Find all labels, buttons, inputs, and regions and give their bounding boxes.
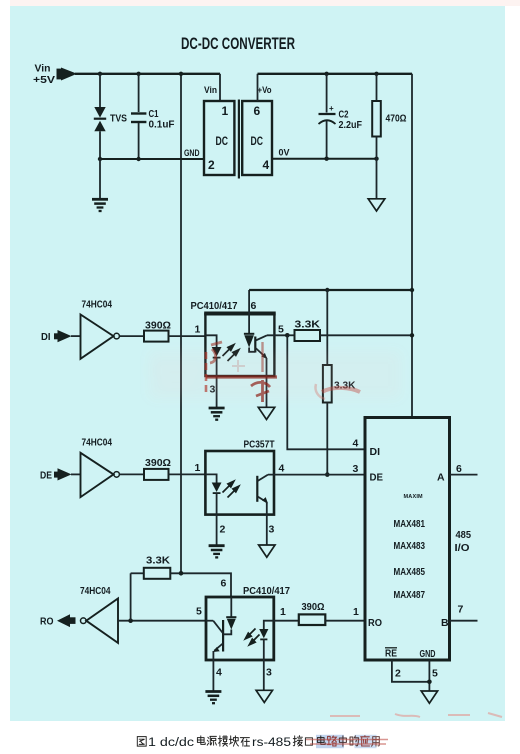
wire to isolated ground (top) bbox=[376, 159, 378, 199]
wire pin6 drop into box bbox=[248, 290, 250, 334]
LED (PC357T) bbox=[212, 483, 222, 494]
svg-text:6: 6 bbox=[221, 578, 227, 590]
label pin 1 (MAX RO) bbox=[353, 606, 359, 618]
svg-text:4: 4 bbox=[216, 667, 222, 679]
label pin 5 (MAX GND) bbox=[432, 668, 438, 680]
label 3.3K (DI pull-up) bbox=[295, 320, 321, 331]
node RO label bbox=[40, 617, 54, 628]
svg-text:485: 485 bbox=[456, 530, 472, 541]
wire 0V bbox=[272, 157, 379, 161]
svg-text:7: 7 bbox=[458, 604, 464, 616]
label pin 7 (MAX B) bbox=[458, 604, 464, 616]
svg-text:390Ω: 390Ω bbox=[302, 602, 325, 613]
caption char 源 bbox=[207, 736, 216, 745]
wire pin1 internal to LED bbox=[205, 335, 216, 347]
caption char 电 bbox=[317, 736, 325, 745]
svg-text:5: 5 bbox=[278, 324, 284, 336]
node junction dots on +5V wire bbox=[98, 72, 183, 76]
label 390ohm (DI) bbox=[145, 321, 171, 332]
wire +Vo rail (x=412) bbox=[411, 74, 413, 418]
wire photodiode to base (RO opto) bbox=[223, 630, 231, 635]
wire pin6 rise bbox=[257, 74, 259, 101]
label 485 I/O bbox=[455, 530, 472, 554]
svg-text:A: A bbox=[437, 472, 445, 484]
capacitor C2 polarized bbox=[319, 104, 336, 124]
wire to earth ground bbox=[99, 159, 101, 198]
wire pin6 drop to photodiode (RO opto) bbox=[230, 597, 232, 617]
svg-text:DC: DC bbox=[216, 134, 229, 148]
svg-text:TVS: TVS bbox=[110, 114, 127, 125]
svg-text:74HC04: 74HC04 bbox=[82, 299, 113, 311]
wire R390 to optocoupler pin1 bbox=[169, 335, 206, 337]
label pin 1 (PC357T) bbox=[195, 462, 201, 474]
label MAX487 bbox=[394, 590, 426, 601]
wire opto pin1 to R390 (RO) bbox=[274, 620, 299, 622]
wire B output bbox=[450, 620, 478, 622]
svg-text:1 dc/dc: 1 dc/dc bbox=[148, 737, 194, 749]
caption char 口 bbox=[305, 738, 312, 745]
wire pin5 out bbox=[267, 333, 290, 338]
svg-text:PC410/417: PC410/417 bbox=[191, 301, 238, 312]
label 0V bbox=[279, 148, 291, 159]
IC U5 MAX481/483/485/487 box bbox=[365, 418, 450, 661]
wire TVS bottom bbox=[99, 131, 101, 159]
svg-text:Vin: Vin bbox=[35, 64, 51, 75]
svg-text:3: 3 bbox=[266, 667, 272, 679]
output arrow RO (points left) bbox=[57, 614, 76, 627]
inverter U1B 74HC04 (DE) bbox=[81, 453, 120, 497]
wire 3.3K right to pin6 (RO opto) bbox=[170, 571, 231, 597]
wire LED to box bottom (RO opto) bbox=[263, 639, 265, 660]
caption char 路 bbox=[327, 736, 336, 746]
diode TVS bbox=[94, 107, 106, 131]
caption char 的 bbox=[350, 736, 358, 746]
photodiode (RO opto) bbox=[226, 617, 236, 629]
wire vertical 3.3K bottom bbox=[325, 403, 330, 477]
wire RE pin2 stub bbox=[392, 660, 430, 682]
wire 470 top bbox=[376, 74, 378, 101]
label RE with overline (MAX) bbox=[385, 648, 397, 660]
svg-text:4: 4 bbox=[279, 463, 285, 475]
label +Vo (module) bbox=[258, 85, 272, 96]
label 74HC04 (DE) bbox=[82, 437, 113, 449]
node junction dots on +Vo wire bbox=[324, 72, 378, 76]
svg-text:GND: GND bbox=[184, 148, 200, 159]
wire pin4 to ground (RO opto) bbox=[212, 660, 214, 691]
label B (MAX) bbox=[441, 617, 449, 629]
watermark band (faint red) bbox=[150, 352, 400, 398]
label 3.3K (vertical, red tinted) bbox=[334, 381, 356, 392]
ground isolated triangle (top) bbox=[368, 199, 385, 211]
wire +5V top bbox=[75, 73, 220, 75]
label Vin (module) bbox=[204, 85, 217, 96]
ground earth (PC357T input side) bbox=[209, 546, 225, 558]
svg-text:1: 1 bbox=[280, 606, 286, 618]
wire emitter to isolated ground bbox=[266, 376, 268, 407]
ground isolated triangle (RO opto) bbox=[256, 690, 272, 702]
svg-text:4: 4 bbox=[263, 158, 270, 172]
label PC410/417 (RO) bbox=[243, 586, 290, 597]
label pin 3 (RO opto) bbox=[266, 667, 272, 679]
label 74HC04 (DI) bbox=[82, 299, 113, 311]
input arrow DI bbox=[54, 330, 72, 342]
svg-text:1: 1 bbox=[222, 104, 229, 118]
svg-text:6: 6 bbox=[251, 300, 257, 312]
label pin 6 (RO opto) bbox=[221, 578, 227, 590]
photodiode (PC410 DI) bbox=[244, 334, 254, 348]
caption char 用 bbox=[371, 737, 379, 747]
svg-text:4: 4 bbox=[353, 438, 359, 450]
wire GND pin5 stub bbox=[427, 660, 432, 691]
svg-text:0V: 0V bbox=[279, 148, 291, 159]
wire +Vo top bbox=[258, 73, 413, 75]
wire A output bbox=[450, 474, 478, 476]
DC-DC module output half bbox=[242, 101, 272, 175]
wire +5V rail (input side, x=181) bbox=[180, 74, 182, 574]
svg-text:2: 2 bbox=[395, 668, 401, 680]
wire pin1 drop bbox=[219, 74, 221, 101]
wire R390 to PC357T pin1 bbox=[169, 473, 206, 475]
wire LED to box bottom (PC357T) bbox=[216, 493, 218, 514]
label 470ohm bbox=[386, 114, 407, 125]
wire DI signal drop to MAX bbox=[287, 335, 365, 449]
svg-text:I/O: I/O bbox=[455, 543, 470, 554]
label MAX483 bbox=[394, 541, 426, 552]
svg-text:470Ω: 470Ω bbox=[386, 114, 407, 125]
caption char 图 bbox=[137, 737, 146, 747]
ground earth (PC410 DI input side) bbox=[209, 408, 225, 420]
transistor (RO opto mirrored) bbox=[213, 620, 223, 652]
svg-text:0.1uF: 0.1uF bbox=[149, 120, 175, 131]
label 3.3K (RO pull-up) bbox=[146, 556, 171, 567]
label DI (MAX) bbox=[370, 446, 381, 458]
watermark specks bottom edge bbox=[330, 713, 502, 717]
resistor 390ohm (RO) bbox=[299, 614, 326, 625]
label TVS bbox=[110, 114, 127, 125]
wire pin3 to isolated ground (PC357T) bbox=[266, 515, 268, 545]
watermark red blob near 3.3K label bbox=[315, 384, 360, 399]
svg-text:3: 3 bbox=[353, 463, 359, 475]
ground isolated triangle (PC357T) bbox=[259, 545, 275, 557]
svg-text:3.3K: 3.3K bbox=[146, 556, 171, 567]
resistor 470ohm bbox=[372, 101, 381, 137]
ground earth (input) bbox=[92, 199, 108, 211]
svg-text:C1: C1 bbox=[149, 109, 159, 120]
wire C2 bottom bbox=[326, 121, 328, 159]
label PC410/417 (DI) bbox=[191, 301, 238, 312]
svg-text:RO: RO bbox=[368, 617, 382, 629]
caption char 在 bbox=[240, 738, 249, 747]
input arrow DE bbox=[54, 468, 72, 480]
wire DE signal to MAX pin3 bbox=[268, 474, 365, 476]
svg-text:390Ω: 390Ω bbox=[145, 458, 171, 469]
wire DE arrow to inverter bbox=[71, 473, 81, 475]
label A (MAX) bbox=[437, 472, 445, 484]
svg-text:3.3K: 3.3K bbox=[295, 320, 321, 331]
label pin 5 (PC410 DI) bbox=[278, 324, 284, 336]
wire C1 top bbox=[138, 74, 140, 112]
svg-text:6: 6 bbox=[254, 104, 261, 118]
wire inverter to R390 (DE) bbox=[119, 473, 144, 475]
svg-text:+Vo: +Vo bbox=[258, 85, 272, 96]
light arrows (PC357T) bbox=[223, 481, 239, 497]
wire pin3 to ground bbox=[216, 376, 218, 407]
caption char 模 bbox=[218, 736, 227, 747]
label pin 2 (MAX RE) bbox=[395, 668, 401, 680]
node DI label bbox=[41, 332, 51, 343]
svg-text:RO: RO bbox=[40, 617, 54, 628]
wire TVS top bbox=[99, 74, 101, 107]
label C1 0.1uF bbox=[149, 109, 175, 131]
wire input GND bbox=[98, 157, 204, 161]
label PC357T bbox=[244, 440, 275, 451]
svg-text:MAX483: MAX483 bbox=[394, 541, 426, 552]
wire 470 bottom bbox=[376, 137, 378, 159]
svg-text:PC357T: PC357T bbox=[244, 440, 275, 451]
svg-text:DC-DC CONVERTER: DC-DC CONVERTER bbox=[181, 34, 295, 53]
wire emitter to box bottom bbox=[266, 358, 268, 376]
wire pin5 internal (RO opto) bbox=[206, 620, 213, 622]
svg-text:B: B bbox=[441, 617, 449, 629]
svg-text:DI: DI bbox=[370, 446, 381, 458]
resistor 390ohm (DE) bbox=[144, 469, 169, 480]
node Vin +5V label bbox=[33, 64, 55, 87]
svg-text:5: 5 bbox=[432, 668, 438, 680]
ground isolated triangle (MAX) bbox=[421, 691, 437, 703]
wire C1 bottom bbox=[138, 123, 140, 159]
wire R390 to MAX RO pin1 bbox=[325, 620, 365, 622]
label C2 2.2uF bbox=[339, 110, 363, 132]
label GND (MAX) bbox=[420, 649, 436, 660]
opto box PC410/417 U4 (RO) bbox=[206, 597, 274, 660]
label pin 4 (PC357T) bbox=[279, 463, 285, 475]
caption char 接 bbox=[293, 736, 302, 747]
label pin 2 (PC357T) bbox=[220, 524, 226, 536]
label pin 3 (PC357T) bbox=[269, 524, 275, 536]
input arrow Vin bbox=[57, 68, 78, 81]
wire 3.3K left leg down bbox=[130, 573, 132, 620]
svg-text:2: 2 bbox=[220, 524, 226, 536]
label pin 1 (RO opto) bbox=[280, 606, 286, 618]
wire pin2 to ground bbox=[216, 515, 218, 545]
watermark dark strokes over DI opto bbox=[206, 342, 277, 402]
svg-text:MAX481: MAX481 bbox=[394, 519, 426, 530]
wire pin3 to isolated ground (RO opto) bbox=[263, 660, 265, 690]
svg-text:1: 1 bbox=[195, 462, 201, 474]
resistor 390ohm (DI) bbox=[144, 331, 169, 342]
label GND bbox=[184, 148, 200, 159]
wire photodiode to base bbox=[249, 348, 255, 352]
caption char 电 bbox=[197, 736, 205, 745]
svg-text:DC: DC bbox=[251, 134, 264, 148]
svg-text:DI: DI bbox=[41, 332, 51, 343]
wire pin5 to R3.3K bbox=[287, 334, 294, 336]
svg-text:1: 1 bbox=[353, 606, 359, 618]
svg-text:3: 3 bbox=[269, 524, 275, 536]
svg-text:DE: DE bbox=[370, 472, 384, 484]
label MAX485 bbox=[394, 567, 426, 578]
inverter U1C 74HC04 (RO, mirrored) bbox=[81, 599, 119, 643]
resistor 3.3K (DI pull-up) bbox=[295, 330, 321, 341]
wire inverter input (RO line) bbox=[118, 618, 206, 623]
LED (PC410 DI) bbox=[212, 347, 222, 358]
label 390ohm (RO) bbox=[302, 602, 325, 613]
svg-text:rs-485: rs-485 bbox=[252, 737, 291, 749]
ground earth (RO opto output side) bbox=[205, 692, 221, 704]
resistor 3.3K (DE pull-up vertical) bbox=[323, 365, 332, 403]
svg-text:6: 6 bbox=[456, 463, 462, 475]
svg-text:2.2uF: 2.2uF bbox=[339, 120, 363, 131]
node DE label bbox=[40, 471, 52, 482]
wire vertical 3.3K top bbox=[326, 290, 328, 365]
DC-DC module input half bbox=[204, 101, 234, 175]
wire LED to box bottom bbox=[216, 358, 218, 376]
inverter U1A 74HC04 (DI) bbox=[81, 315, 120, 359]
label pin 4 (MAX DI) bbox=[353, 438, 359, 450]
svg-text:1: 1 bbox=[195, 324, 201, 336]
wire 3.3K left bbox=[131, 572, 144, 574]
svg-text:Vin: Vin bbox=[204, 85, 217, 96]
caption watermark red overlay bbox=[306, 740, 388, 745]
svg-text:DE: DE bbox=[40, 471, 52, 482]
svg-text:PC410/417: PC410/417 bbox=[243, 586, 290, 597]
opto box PC357T U3 (DE) bbox=[205, 451, 274, 515]
caption char 应 bbox=[361, 736, 370, 747]
svg-text:MAX487: MAX487 bbox=[394, 590, 426, 601]
label pin 3 (PC410 DI) bbox=[210, 384, 216, 396]
svg-text:5: 5 bbox=[196, 606, 202, 618]
title DC-DC CONVERTER bbox=[181, 34, 295, 53]
caption latin "1 dc/dc" bbox=[148, 737, 194, 749]
svg-text:C2: C2 bbox=[339, 110, 349, 121]
svg-text:MAXIM: MAXIM bbox=[404, 494, 424, 500]
label DE (MAX) bbox=[370, 472, 384, 484]
wire inverter to R 390 bbox=[119, 335, 144, 337]
caption char 中 bbox=[339, 736, 346, 746]
label pin 3 (MAX DE) bbox=[353, 463, 359, 475]
label 390ohm (DE) bbox=[145, 458, 171, 469]
wire pin6 +Vo feed bbox=[249, 288, 414, 292]
light arrows (RO opto, pointing down-left) bbox=[245, 629, 259, 645]
light arrows (PC410 DI) bbox=[223, 345, 239, 361]
caption char 块 bbox=[229, 736, 238, 746]
svg-text:74HC04: 74HC04 bbox=[80, 585, 111, 597]
wire C2 top bbox=[326, 74, 328, 113]
logo maxim tiny bbox=[404, 494, 424, 500]
op-to box PC410/417 U2 (DI) bbox=[204, 314, 276, 377]
wire R3.3K to +Vo rail bbox=[320, 333, 414, 337]
svg-text:RE: RE bbox=[385, 649, 397, 660]
LED (RO opto right side) bbox=[259, 621, 274, 640]
svg-text:MAX485: MAX485 bbox=[394, 567, 426, 578]
label pin 6 (MAX A) bbox=[456, 463, 462, 475]
transistor (PC410 DI) bbox=[255, 335, 267, 359]
label MAX481 bbox=[394, 519, 426, 530]
wire emitter to box bottom (RO opto) bbox=[212, 651, 214, 660]
ground isolated triangle (PC410 DI) bbox=[258, 407, 274, 419]
capacitor C1 bbox=[131, 114, 146, 123]
caption highlight (selection) boxes bbox=[316, 735, 377, 748]
svg-text:+: + bbox=[329, 104, 334, 113]
svg-text:+5V: +5V bbox=[33, 75, 55, 86]
label pin 6 (PC410 DI) bbox=[251, 300, 257, 312]
transistor (PC357T) bbox=[257, 475, 268, 504]
wire DI arrow to inverter bbox=[71, 335, 81, 337]
label RO (MAX) bbox=[368, 617, 382, 629]
label pin 5 (RO opto) bbox=[196, 606, 202, 618]
svg-text:2: 2 bbox=[208, 158, 215, 172]
label pin 4 (RO opto) bbox=[216, 667, 222, 679]
caption latin "rs-485" bbox=[252, 737, 291, 749]
label pin 1 (PC410 DI) bbox=[195, 324, 201, 336]
svg-text:74HC04: 74HC04 bbox=[82, 437, 113, 449]
wire pin1 internal to LED (PC357T) bbox=[205, 474, 216, 482]
label 74HC04 (RO) bbox=[80, 585, 111, 597]
isolation barrier bbox=[238, 100, 240, 179]
wire emitter to box bottom (PC357T) bbox=[266, 502, 268, 514]
svg-text:GND: GND bbox=[420, 649, 436, 660]
resistor 3.3K (RO pull-up) bbox=[144, 568, 171, 579]
